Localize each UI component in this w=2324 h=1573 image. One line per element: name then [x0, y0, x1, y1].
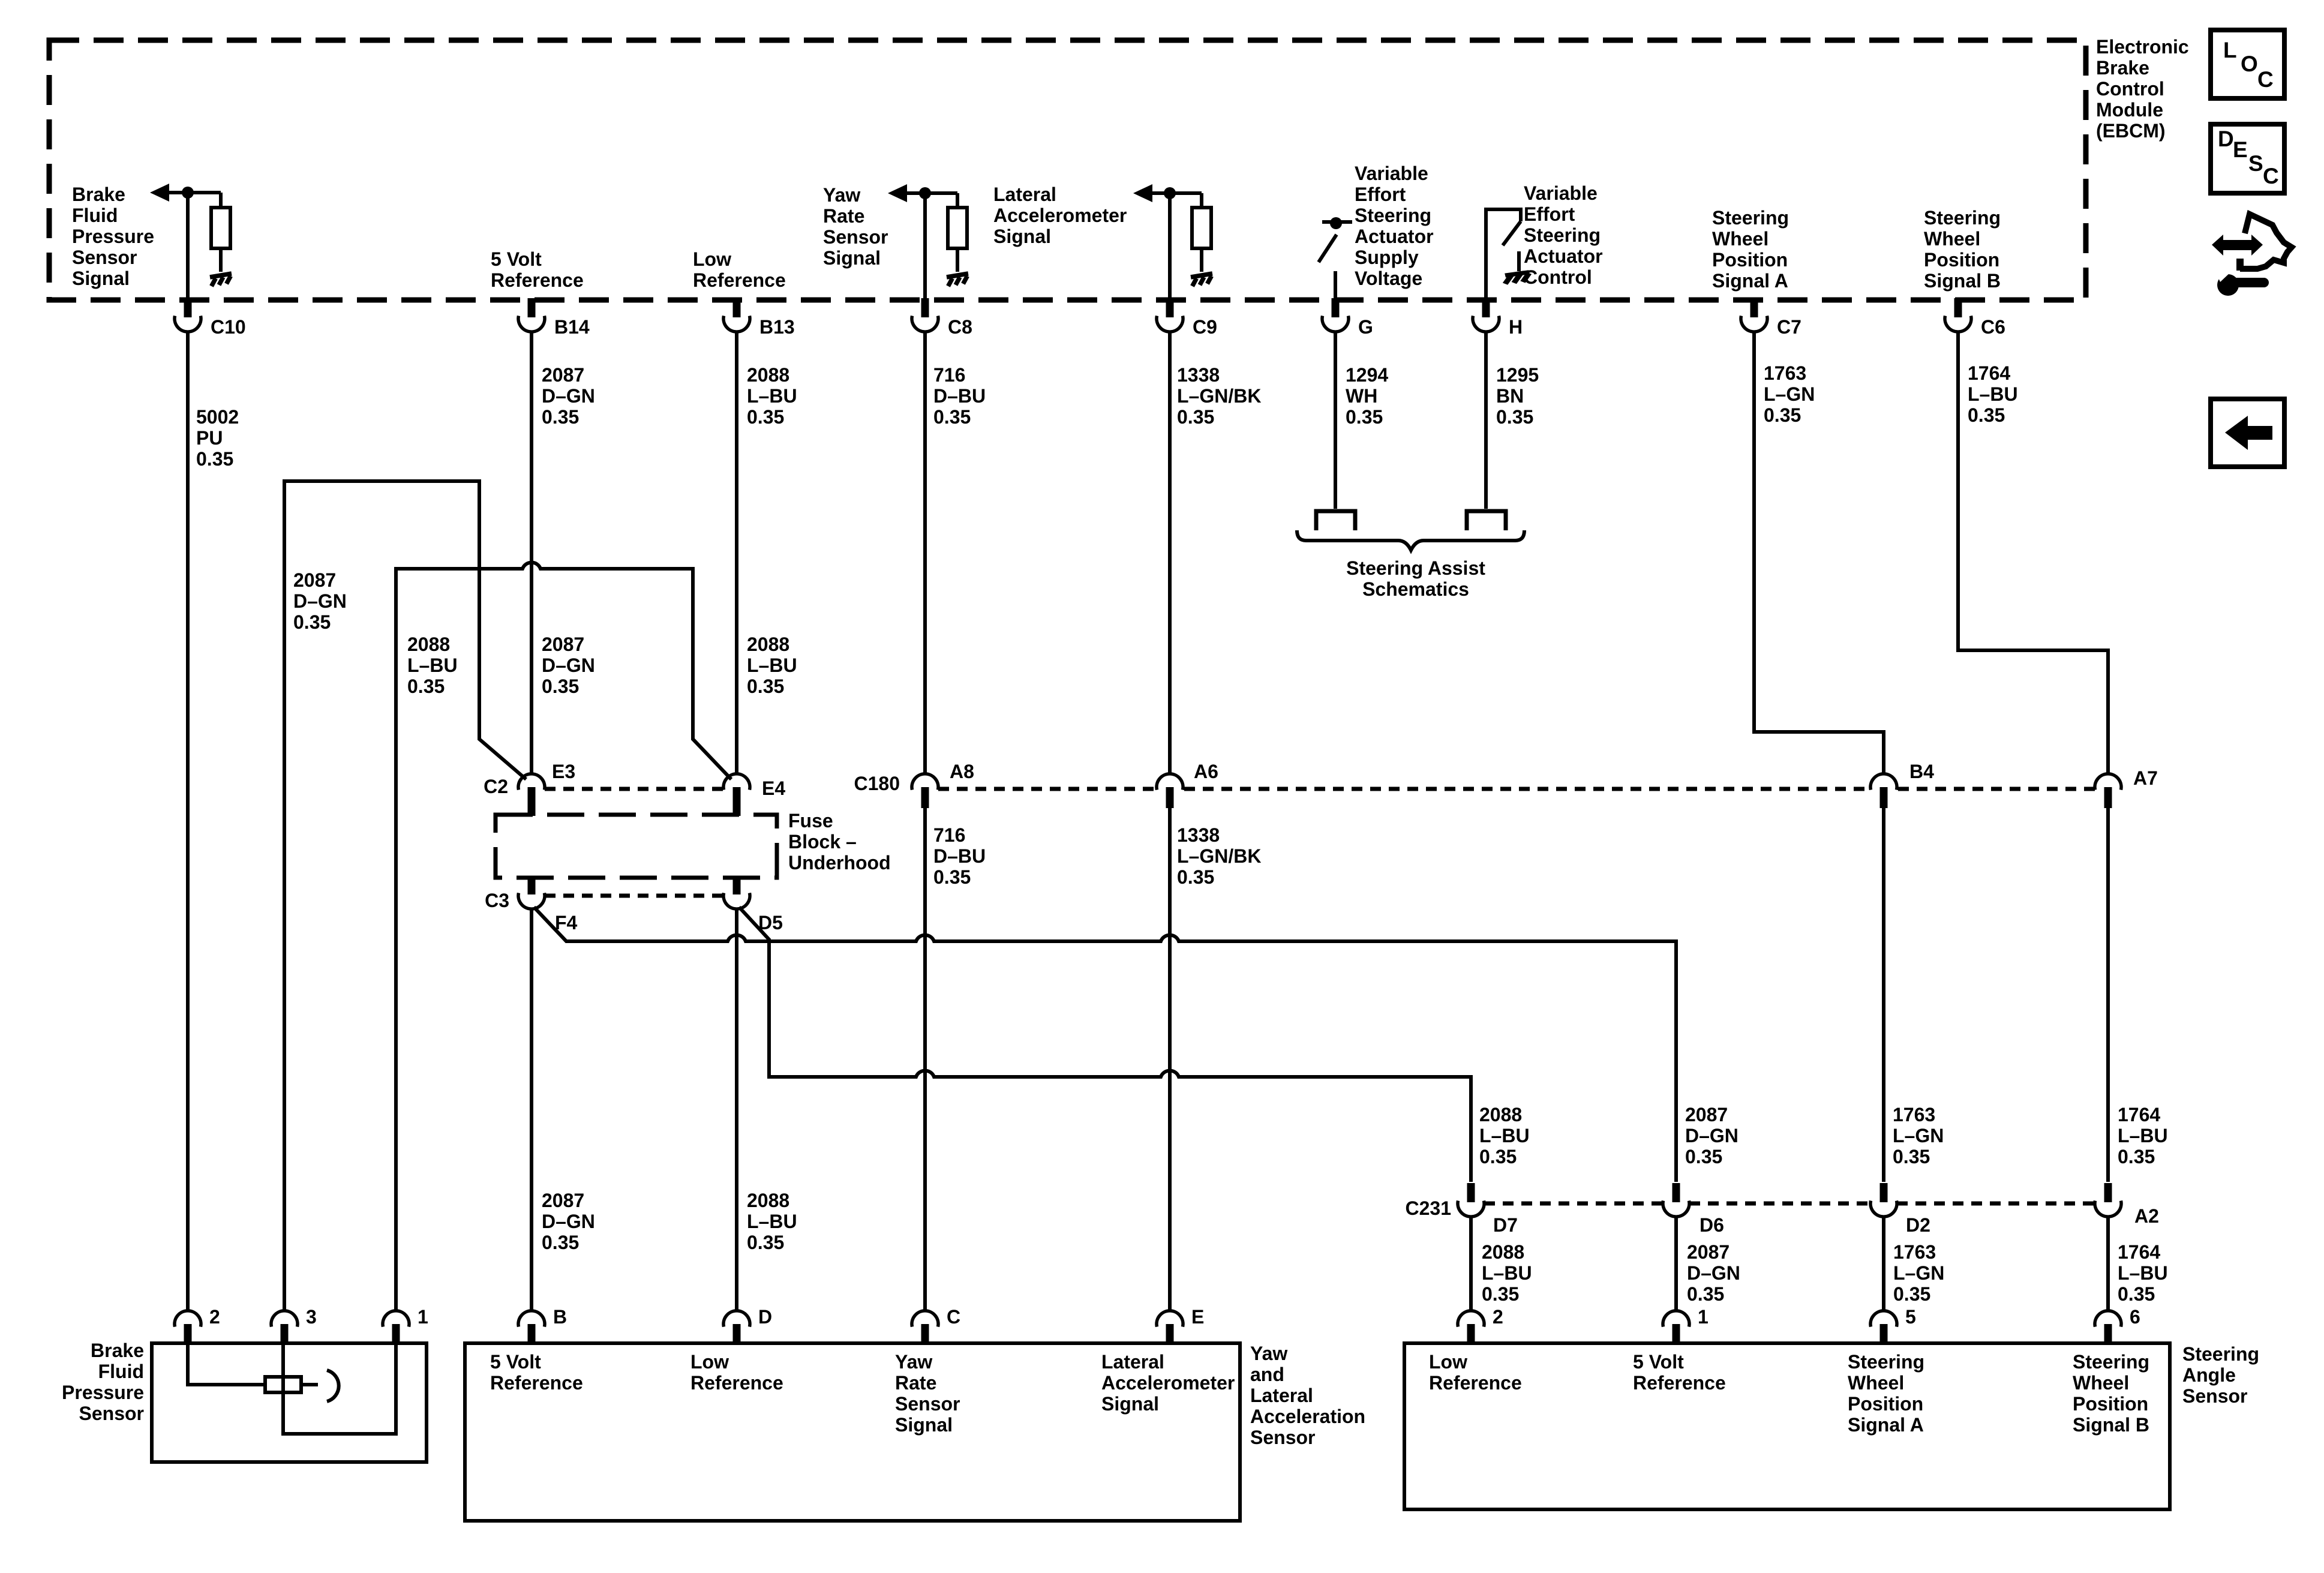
connector fuse terminal E4	[733, 787, 741, 816]
svg-text:Low: Low	[693, 248, 731, 270]
off-page connector (H wire)	[1467, 511, 1506, 530]
pin C10 EBCM connector	[184, 298, 192, 317]
svg-text:0.35: 0.35	[1893, 1146, 1930, 1167]
svg-text:0.35: 0.35	[196, 448, 233, 470]
resistor R2 (yaw rate pullup)	[948, 208, 967, 248]
pin C sensor connector	[912, 1311, 938, 1327]
svg-text:2: 2	[1493, 1306, 1503, 1328]
svg-text:Sensor: Sensor	[2182, 1385, 2247, 1407]
svg-text:Rate: Rate	[895, 1372, 936, 1394]
Electronic Brake Control Module (EBCM) dashed box	[49, 40, 2086, 300]
wire to resistor R3	[1200, 193, 1203, 208]
switch S1 (VES actuator supply)	[1322, 220, 1352, 224]
wire 1763 L-GN (D2 to pin 5)	[1882, 1217, 1885, 1311]
svg-text:2088: 2088	[1479, 1104, 1522, 1125]
connector C231 terminal A2	[2104, 1183, 2112, 1202]
svg-text:Angle: Angle	[2182, 1364, 2236, 1386]
wire 1338 L-GN/BK (A6 to pin E)	[1168, 808, 1172, 1311]
wire resistor R3 to ground	[1200, 248, 1203, 272]
svg-text:Yaw: Yaw	[895, 1351, 932, 1373]
svg-text:Reference: Reference	[1429, 1372, 1522, 1394]
svg-text:Yaw: Yaw	[1250, 1343, 1287, 1364]
wire to resistor R2	[956, 193, 959, 208]
svg-text:5002: 5002	[196, 406, 239, 428]
svg-text:C: C	[2263, 164, 2279, 188]
svg-text:Position: Position	[2073, 1393, 2148, 1415]
pin 2 sensor connector	[1458, 1311, 1484, 1327]
svg-text:1295: 1295	[1496, 364, 1539, 386]
svg-text:0.35: 0.35	[1177, 406, 1214, 428]
svg-text:0.35: 0.35	[747, 1232, 784, 1253]
svg-text:E: E	[1191, 1306, 1204, 1328]
icon wrench/arrow (diagnostic)	[2212, 235, 2263, 256]
svg-text:0.35: 0.35	[542, 1232, 579, 1253]
svg-text:L–GN: L–GN	[1893, 1262, 1944, 1284]
svg-text:Effort: Effort	[1355, 184, 1406, 205]
svg-text:L–BU: L–BU	[2118, 1262, 2168, 1284]
svg-text:0.35: 0.35	[933, 866, 971, 888]
svg-text:0.35: 0.35	[1177, 866, 1214, 888]
svg-text:1763: 1763	[1764, 362, 1806, 384]
svg-text:D–GN: D–GN	[542, 385, 595, 407]
arrow brake fluid pressure sensor signal	[150, 184, 169, 202]
svg-text:Variable: Variable	[1524, 182, 1598, 204]
svg-text:Steering: Steering	[1924, 207, 2001, 229]
arrow yaw rate sensor signal	[888, 184, 907, 202]
icon DESC box	[2211, 124, 2284, 193]
svg-text:Underhood: Underhood	[788, 852, 891, 873]
svg-text:Accelerometer: Accelerometer	[993, 205, 1127, 226]
wire 2087 D-GN (F4 to pin B)	[530, 909, 533, 1311]
svg-text:WH: WH	[1346, 385, 1377, 407]
svg-text:2087: 2087	[293, 569, 336, 591]
svg-text:G: G	[1358, 316, 1373, 338]
svg-text:1294: 1294	[1346, 364, 1388, 386]
svg-text:D–GN: D–GN	[293, 590, 347, 612]
svg-text:L–BU: L–BU	[407, 655, 458, 676]
wire C10 vertical inside EBCM	[186, 193, 190, 300]
svg-text:2: 2	[209, 1306, 220, 1328]
svg-text:D–BU: D–BU	[933, 385, 986, 407]
svg-text:Position: Position	[1848, 1393, 1923, 1415]
svg-text:3: 3	[306, 1306, 317, 1328]
svg-text:E3: E3	[552, 761, 575, 782]
svg-text:L–BU: L–BU	[2118, 1125, 2168, 1146]
svg-text:Signal B: Signal B	[1924, 270, 2001, 292]
svg-text:0.35: 0.35	[1479, 1146, 1517, 1167]
svg-text:Steering: Steering	[1355, 205, 1431, 226]
icon back arrow box	[2211, 399, 2284, 467]
wire 2087 D-GN (B14 to E3)	[530, 332, 533, 774]
svg-text:0.35: 0.35	[747, 676, 784, 697]
wire 716 D-BU (A8 to pin C)	[923, 808, 927, 1311]
svg-text:B13: B13	[759, 316, 795, 338]
svg-text:Wheel: Wheel	[1712, 228, 1768, 250]
svg-text:1764: 1764	[2118, 1104, 2160, 1125]
wire 2088 L-BU (D7 to pin 2)	[1469, 1217, 1473, 1311]
svg-text:Lateral: Lateral	[1101, 1351, 1164, 1373]
svg-text:A8: A8	[950, 761, 974, 782]
svg-text:1: 1	[1698, 1306, 1709, 1328]
svg-text:Fuse: Fuse	[788, 810, 833, 831]
svg-text:Signal A: Signal A	[1712, 270, 1788, 292]
svg-text:Low: Low	[1429, 1351, 1467, 1373]
svg-text:Actuator: Actuator	[1524, 245, 1603, 267]
svg-text:2088: 2088	[1482, 1241, 1524, 1263]
svg-text:and: and	[1250, 1364, 1284, 1385]
connector C231 terminal D6	[1673, 1183, 1680, 1202]
svg-text:D–BU: D–BU	[933, 845, 986, 867]
svg-text:Reference: Reference	[490, 1372, 583, 1394]
svg-text:Brake: Brake	[91, 1340, 144, 1361]
dotted line C3-D5	[545, 894, 723, 898]
svg-text:0.35: 0.35	[542, 406, 579, 428]
pin B13 EBCM connector	[733, 298, 741, 317]
wire 2088 L-BU (D5 to pin D)	[735, 909, 738, 1311]
svg-text:Signal A: Signal A	[1848, 1414, 1924, 1436]
svg-text:Fluid: Fluid	[98, 1361, 144, 1382]
svg-text:Module: Module	[2096, 99, 2163, 121]
svg-text:Voltage: Voltage	[1355, 268, 1422, 289]
svg-text:Sensor: Sensor	[823, 226, 888, 248]
svg-text:E: E	[2233, 137, 2248, 162]
svg-text:Steering: Steering	[2073, 1351, 2149, 1373]
svg-text:A2: A2	[2134, 1205, 2159, 1227]
svg-text:D–GN: D–GN	[542, 1211, 595, 1232]
svg-text:0.35: 0.35	[1482, 1283, 1519, 1305]
svg-text:Sensor: Sensor	[895, 1393, 960, 1415]
svg-text:D–GN: D–GN	[1685, 1125, 1739, 1146]
wire resistor R1 to ground	[219, 248, 223, 272]
node junction C10	[182, 187, 194, 199]
arrow lateral accelerometer signal	[1133, 184, 1152, 202]
Yaw and Lateral Acceleration Sensor box	[465, 1343, 1240, 1521]
off-page connector (G wire)	[1316, 511, 1355, 530]
svg-text:D–GN: D–GN	[542, 655, 595, 676]
resistor R1 (brake fluid pressure pullup)	[211, 208, 230, 248]
svg-text:L–GN: L–GN	[1764, 383, 1815, 405]
svg-text:L: L	[2223, 38, 2237, 62]
svg-text:2087: 2087	[542, 1190, 584, 1211]
wire C10 pullup horizontal	[168, 191, 221, 194]
svg-text:1763: 1763	[1893, 1104, 1935, 1125]
ground G2	[947, 274, 968, 286]
pin 1 sensor connector	[1663, 1311, 1689, 1327]
svg-text:0.35: 0.35	[1687, 1283, 1724, 1305]
svg-text:Reference: Reference	[693, 269, 786, 291]
pin B sensor connector	[518, 1311, 545, 1327]
wire C8 pullup horizontal	[906, 191, 957, 195]
svg-text:O: O	[2241, 52, 2258, 76]
wire 1294 WH (G to steering assist)	[1334, 332, 1337, 509]
svg-text:Reference: Reference	[690, 1372, 783, 1394]
svg-text:B4: B4	[1909, 761, 1934, 782]
wire 1763 L-GN (B4 to D2)	[1882, 808, 1885, 1182]
svg-text:1763: 1763	[1893, 1241, 1936, 1263]
svg-text:Control: Control	[2096, 78, 2164, 100]
svg-text:B14: B14	[554, 316, 590, 338]
pin 6 sensor connector	[2095, 1311, 2121, 1327]
svg-text:1764: 1764	[2118, 1241, 2160, 1263]
svg-text:C: C	[947, 1306, 960, 1328]
svg-text:1338: 1338	[1177, 824, 1220, 846]
wire 1763 L-GN (C7 to B4)	[1754, 332, 1884, 774]
svg-text:2088: 2088	[747, 634, 789, 655]
svg-text:L–BU: L–BU	[1479, 1125, 1530, 1146]
svg-text:Pressure: Pressure	[62, 1382, 144, 1403]
svg-text:Yaw: Yaw	[823, 184, 860, 206]
svg-text:L–GN/BK: L–GN/BK	[1177, 385, 1261, 407]
svg-text:Reference: Reference	[491, 269, 584, 291]
svg-text:D: D	[2218, 127, 2234, 151]
pin H EBCM connector	[1482, 298, 1490, 317]
wire C9 vertical inside EBCM	[1168, 193, 1172, 300]
pin D sensor connector	[723, 1311, 750, 1327]
svg-text:2087: 2087	[1687, 1241, 1730, 1263]
node junction C9	[1164, 187, 1176, 199]
svg-text:H: H	[1509, 316, 1523, 338]
svg-text:0.35: 0.35	[933, 406, 971, 428]
svg-text:1338: 1338	[1177, 364, 1220, 386]
svg-text:Electronic: Electronic	[2096, 36, 2189, 58]
svg-text:0.35: 0.35	[1685, 1146, 1722, 1167]
svg-text:0.35: 0.35	[542, 676, 579, 697]
svg-text:Signal: Signal	[1101, 1393, 1159, 1415]
svg-text:D: D	[758, 1306, 772, 1328]
svg-text:Supply: Supply	[1355, 247, 1419, 268]
pin C8 EBCM connector	[921, 298, 929, 317]
svg-text:C3: C3	[485, 890, 509, 911]
svg-text:Position: Position	[1924, 249, 1999, 271]
pin 5 sensor connector	[1870, 1311, 1897, 1327]
pin C9 EBCM connector	[1166, 298, 1174, 317]
wire 5002 PU (C10 to pin 2)	[186, 332, 190, 1311]
svg-text:0.35: 0.35	[2118, 1146, 2155, 1167]
svg-text:Effort: Effort	[1524, 203, 1575, 225]
icon LOC box	[2211, 30, 2284, 98]
svg-text:B: B	[553, 1306, 567, 1328]
svg-text:Steering: Steering	[1848, 1351, 1924, 1373]
wire 716 D-BU (C8 to A8)	[923, 332, 927, 774]
svg-text:C6: C6	[1981, 316, 2005, 338]
svg-text:Actuator: Actuator	[1355, 226, 1434, 247]
wire 2088 L-BU branch (pin 1 to E4)	[396, 563, 731, 1311]
svg-text:Sensor: Sensor	[1250, 1427, 1315, 1448]
svg-text:0.35: 0.35	[407, 676, 445, 697]
svg-text:5 Volt: 5 Volt	[1633, 1351, 1684, 1373]
svg-text:1: 1	[418, 1306, 428, 1328]
svg-text:Steering: Steering	[1712, 207, 1789, 229]
svg-text:(EBCM): (EBCM)	[2096, 120, 2166, 142]
svg-text:716: 716	[933, 364, 965, 386]
svg-text:Lateral: Lateral	[993, 184, 1056, 205]
svg-text:L–GN/BK: L–GN/BK	[1177, 845, 1261, 867]
svg-text:0.35: 0.35	[1764, 404, 1801, 426]
svg-text:D7: D7	[1493, 1214, 1518, 1236]
svg-text:2087: 2087	[542, 364, 584, 386]
pin C7 EBCM connector	[1750, 298, 1758, 317]
wire 1764 L-BU (C6 to A7)	[1958, 332, 2108, 774]
svg-text:Variable: Variable	[1355, 163, 1428, 184]
svg-text:C9: C9	[1193, 316, 1217, 338]
svg-text:PU: PU	[196, 427, 223, 449]
switch S2 (VES actuator control)	[1486, 209, 1521, 300]
svg-text:0.35: 0.35	[1968, 404, 2005, 426]
svg-text:0.35: 0.35	[1346, 406, 1383, 428]
sensor transducer arc	[327, 1370, 339, 1401]
pin E sensor connector	[1157, 1311, 1183, 1327]
dotted line E3-E4	[545, 787, 723, 791]
connector C180 terminal A6	[1157, 774, 1183, 790]
connector fuse terminal D5	[733, 878, 741, 894]
svg-text:L–BU: L–BU	[747, 655, 797, 676]
wire G inside EBCM	[1334, 271, 1337, 300]
svg-text:Signal: Signal	[895, 1414, 953, 1436]
connector C180 terminal B4	[1870, 774, 1897, 790]
dotted line C231	[1484, 1202, 1663, 1206]
svg-text:L–BU: L–BU	[1482, 1262, 1532, 1284]
svg-text:Signal: Signal	[72, 268, 130, 289]
svg-text:Steering Assist: Steering Assist	[1346, 557, 1485, 579]
svg-text:Wheel: Wheel	[1848, 1372, 1904, 1394]
svg-text:D6: D6	[1700, 1214, 1724, 1236]
svg-text:BN: BN	[1496, 385, 1524, 407]
svg-text:Fluid: Fluid	[72, 205, 118, 226]
svg-text:Steering: Steering	[1524, 224, 1601, 246]
svg-text:Reference: Reference	[1633, 1372, 1726, 1394]
wire 1764 L-BU (A7 to A2)	[2106, 808, 2110, 1182]
svg-text:Low: Low	[690, 1351, 729, 1373]
svg-text:5: 5	[1905, 1306, 1916, 1328]
svg-text:Sensor: Sensor	[72, 247, 137, 268]
connector C180 terminal A7	[2095, 774, 2121, 790]
svg-text:716: 716	[933, 824, 965, 846]
svg-text:Signal: Signal	[823, 247, 881, 269]
pin 1 sensor connector	[383, 1311, 409, 1327]
svg-text:6: 6	[2130, 1306, 2140, 1328]
connector C231 terminal D2	[1880, 1183, 1888, 1202]
wire 1295 BN (H to steering assist)	[1484, 332, 1488, 509]
brace steering assist schematics	[1297, 530, 1524, 550]
svg-text:Pressure: Pressure	[72, 226, 154, 247]
svg-text:0.35: 0.35	[2118, 1283, 2155, 1305]
svg-text:L–BU: L–BU	[747, 1211, 797, 1232]
svg-text:C10: C10	[211, 316, 246, 338]
svg-text:L–BU: L–BU	[1968, 383, 2018, 405]
svg-text:Wheel: Wheel	[2073, 1372, 2129, 1394]
svg-text:C2: C2	[484, 776, 508, 797]
svg-text:C8: C8	[948, 316, 972, 338]
svg-text:0.35: 0.35	[1893, 1283, 1930, 1305]
svg-text:0.35: 0.35	[747, 406, 784, 428]
svg-text:C: C	[2257, 67, 2274, 92]
ground G3	[1191, 274, 1212, 286]
wire 2087 D-GN (D6 to pin 1)	[1674, 1217, 1678, 1311]
pin 3 sensor connector	[271, 1311, 298, 1327]
svg-text:A7: A7	[2133, 767, 2158, 789]
pin 2 sensor connector	[175, 1311, 201, 1327]
svg-text:C231: C231	[1406, 1197, 1452, 1219]
svg-text:2088: 2088	[407, 634, 450, 655]
svg-text:L–GN: L–GN	[1893, 1125, 1944, 1146]
svg-text:L–BU: L–BU	[747, 385, 797, 407]
ground G4	[1505, 272, 1529, 284]
svg-text:Accelerometer: Accelerometer	[1101, 1372, 1235, 1394]
svg-text:Signal B: Signal B	[2073, 1414, 2149, 1436]
svg-text:2088: 2088	[747, 364, 789, 386]
wire 2088 L-BU branch (D5 to D7)	[739, 907, 1471, 1182]
svg-text:0.35: 0.35	[1496, 406, 1533, 428]
svg-text:5 Volt: 5 Volt	[490, 1351, 541, 1373]
node junction C8	[919, 187, 931, 199]
wire 1764 L-BU (A2 to pin 6)	[2106, 1217, 2110, 1311]
svg-text:2087: 2087	[542, 634, 584, 655]
pin B14 EBCM connector	[528, 298, 536, 317]
connector C180 terminal A8	[912, 774, 938, 790]
wire 2087 D-GN branch (pin 3 to E3)	[284, 481, 526, 1311]
svg-text:A6: A6	[1194, 761, 1218, 782]
dotted line C180	[938, 787, 1155, 791]
svg-text:S: S	[2248, 151, 2263, 176]
Steering Angle Sensor box	[1404, 1343, 2170, 1509]
pin C6 EBCM connector	[1954, 298, 1962, 317]
svg-text:E4: E4	[762, 778, 785, 799]
svg-text:Control: Control	[1524, 266, 1592, 288]
svg-text:Schematics: Schematics	[1362, 578, 1469, 600]
svg-text:D2: D2	[1906, 1214, 1930, 1236]
wire 2088 L-BU (B13 to E4)	[735, 332, 738, 774]
svg-text:Block –: Block –	[788, 831, 857, 852]
svg-text:Position: Position	[1712, 249, 1788, 271]
svg-text:Acceleration: Acceleration	[1250, 1406, 1365, 1427]
connector C2 / fuse terminal E3	[528, 787, 536, 816]
connector C231 terminal D7	[1467, 1183, 1475, 1202]
svg-text:1764: 1764	[1968, 362, 2010, 384]
wire C8 vertical inside EBCM	[923, 193, 927, 300]
svg-text:C180: C180	[854, 773, 900, 794]
svg-text:0.35: 0.35	[293, 611, 331, 633]
svg-text:C7: C7	[1777, 316, 1801, 338]
svg-text:Wheel: Wheel	[1924, 228, 1980, 250]
svg-text:Brake: Brake	[72, 184, 125, 205]
svg-text:Lateral: Lateral	[1250, 1385, 1313, 1406]
fuse block underhood dashed box	[496, 815, 777, 878]
svg-text:2087: 2087	[1685, 1104, 1728, 1125]
connector C3 / fuse terminal F4	[528, 878, 536, 894]
sensor internal wiring	[188, 1345, 265, 1385]
pin G EBCM connector	[1332, 298, 1340, 317]
wire 2087 D-GN branch (C3 to D6)	[534, 907, 1676, 1182]
wire resistor R2 to ground	[956, 248, 959, 272]
svg-text:2088: 2088	[747, 1190, 789, 1211]
wire C9 pullup horizontal	[1151, 191, 1202, 195]
Brake Fluid Pressure Sensor box	[152, 1343, 427, 1462]
svg-text:Signal: Signal	[993, 226, 1051, 247]
svg-text:5 Volt: 5 Volt	[491, 248, 542, 270]
svg-text:Sensor: Sensor	[79, 1403, 144, 1424]
svg-text:Rate: Rate	[823, 205, 864, 227]
wire 1338 L-GN/BK (C9 to A6)	[1168, 332, 1172, 774]
sensor internal resistor	[265, 1377, 301, 1392]
svg-text:D–GN: D–GN	[1687, 1262, 1740, 1284]
ground G1	[210, 274, 232, 286]
resistor R3 (lateral accel pullup)	[1192, 208, 1211, 248]
svg-text:Brake: Brake	[2096, 57, 2149, 79]
svg-text:Steering: Steering	[2182, 1343, 2259, 1365]
wire to resistor R1	[219, 193, 223, 208]
